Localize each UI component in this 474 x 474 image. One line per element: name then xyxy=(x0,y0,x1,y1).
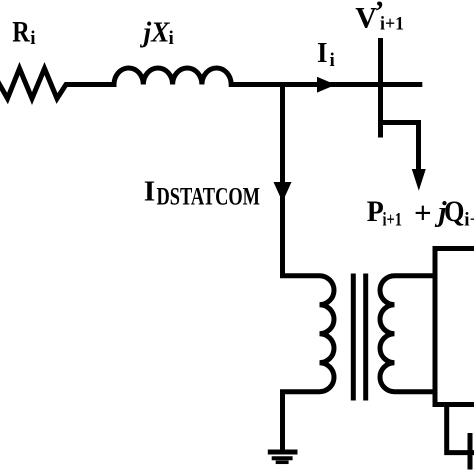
svg-text:R: R xyxy=(12,16,30,49)
svg-text:i: i xyxy=(330,50,335,71)
svg-text:i+1: i+1 xyxy=(380,14,404,35)
svg-text:i+1: i+1 xyxy=(464,210,474,231)
svg-text:i: i xyxy=(30,28,35,49)
svg-text:+: + xyxy=(414,195,432,230)
svg-text:I: I xyxy=(317,37,328,69)
svg-text:i+1: i+1 xyxy=(383,210,403,231)
svg-text:Q: Q xyxy=(444,195,465,228)
svg-text:DSTATCOM: DSTATCOM xyxy=(157,182,261,211)
svg-text:i: i xyxy=(169,28,174,49)
svg-text:P: P xyxy=(367,195,384,228)
svg-text:I: I xyxy=(144,176,156,208)
svg-text:jX: jX xyxy=(140,17,170,49)
